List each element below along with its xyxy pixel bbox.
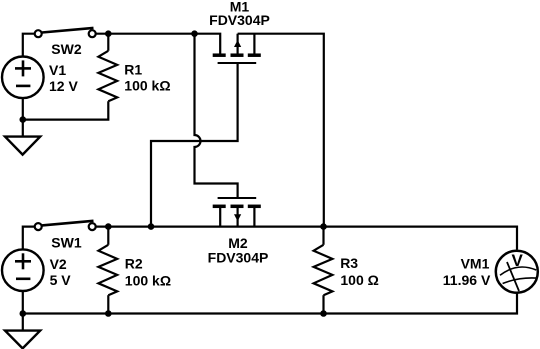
- svg-text:FDV304P: FDV304P: [209, 12, 270, 28]
- wire V1 bottom to ground node: [22, 98, 24, 137]
- svg-text:V2: V2: [50, 256, 67, 272]
- svg-text:V1: V1: [49, 62, 66, 78]
- svg-text:R3: R3: [340, 255, 358, 271]
- wire M1 middle (body) lead: [237, 34, 239, 55]
- voltage source V1: [2, 57, 44, 99]
- svg-text:100 kΩ: 100 kΩ: [124, 77, 170, 93]
- svg-text:V: V: [512, 251, 524, 270]
- resistor R1 zigzag: [98, 51, 117, 101]
- voltage source V2: [2, 249, 44, 291]
- wire R2 bottom lead: [107, 295, 109, 313]
- wire M2 middle (body) lead: [237, 206, 239, 226]
- wire V2 bottom to ground node: [22, 291, 24, 331]
- ground (V1): [5, 137, 40, 155]
- ground (V2): [5, 331, 40, 349]
- wire 12V node down with hop over gate wire: [195, 34, 238, 198]
- svg-text:R2: R2: [125, 255, 143, 271]
- svg-text:12 V: 12 V: [49, 78, 78, 94]
- switch SW1: [35, 221, 96, 230]
- wire top rail right segment M1 body/drain to output column: [238, 34, 324, 227]
- wire V1 top to SW2: [23, 34, 35, 57]
- svg-text:100 Ω: 100 Ω: [340, 272, 378, 288]
- wire SW2 right terminal to top rail toward M1 source: [96, 34, 220, 55]
- node R2 bottom junction: [105, 310, 112, 317]
- svg-text:M2: M2: [228, 235, 248, 251]
- svg-text:100 kΩ: 100 kΩ: [125, 272, 171, 288]
- wire R2 top lead: [107, 227, 109, 245]
- transistor M2 (PMOS FDV304P, mirrored): [213, 198, 261, 221]
- wire R3 bottom lead: [322, 295, 324, 313]
- svg-text:FDV304P: FDV304P: [208, 250, 269, 266]
- wire M2 right lead: [253, 206, 255, 226]
- node SW1 output junction: [105, 223, 112, 230]
- svg-text:11.96 V: 11.96 V: [443, 272, 491, 288]
- node R3 top junction: [320, 223, 327, 230]
- node R1 top junction: [105, 30, 112, 37]
- voltmeter VM1: [496, 251, 538, 293]
- svg-text:VM1: VM1: [461, 255, 490, 271]
- wire mid rail SW1 to VM1 top: [96, 227, 517, 250]
- wire bottom rail ground node to VM1 bottom: [23, 292, 517, 314]
- wire M1 gate down-left to SW1 node: [151, 63, 238, 227]
- node R3 bottom junction: [320, 310, 327, 317]
- wire V2 top to SW1: [23, 227, 35, 250]
- node 12V rail junction: [191, 30, 198, 37]
- svg-text:SW1: SW1: [51, 235, 82, 251]
- resistor R2 zigzag: [98, 245, 117, 295]
- node V2 ground junction: [20, 310, 27, 317]
- node V1 ground junction: [20, 116, 27, 123]
- wire R3 top lead: [322, 227, 324, 245]
- svg-text:R1: R1: [124, 61, 142, 77]
- switch SW2: [35, 28, 96, 37]
- resistor R3 zigzag: [314, 245, 333, 295]
- transistor M1 (PMOS FDV304P): [213, 40, 261, 63]
- wire M2 left lead: [219, 206, 221, 226]
- svg-text:SW2: SW2: [51, 41, 82, 57]
- wire ground node to R1 bottom: [23, 101, 109, 119]
- svg-text:5 V: 5 V: [50, 272, 72, 288]
- node M1 gate junction: [148, 223, 155, 230]
- wire R1 top lead: [107, 34, 109, 51]
- wire M1 right lead: [253, 34, 255, 55]
